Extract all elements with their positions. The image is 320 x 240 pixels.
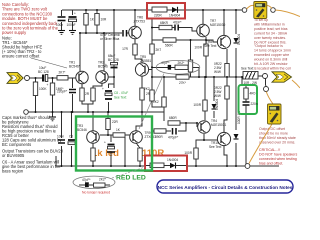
capacitor 100n supply decoupling (56, 17, 66, 27)
diode 1N4004 (bias, top) (234, 34, 242, 45)
svg-text:positive lead; set bias: positive lead; set bias (254, 27, 288, 31)
rail break terminal circle (right) (271, 8, 276, 13)
rail break terminal circle (left) (242, 8, 247, 13)
diode 1N4004 (lower bias) (212, 99, 220, 110)
wire: compensation row mid (171, 66, 175, 68)
svg-text:470pF*: 470pF* (168, 136, 179, 140)
orange supply lead exiting right (275, 10, 300, 17)
svg-text:observed over 20 mins.: observed over 20 mins. (259, 141, 295, 145)
wire: lower-left cap 1 to bottom rail (61, 146, 63, 166)
svg-text:+: + (102, 87, 104, 91)
dashed callout line to red box (112, 167, 145, 178)
output inductor (coil with 10R) (241, 67, 258, 86)
orange meter lead (left to multimeter) (247, 5, 256, 9)
wire: 470pF to TR4 base junction (178, 123, 186, 131)
resistor 680R (driver base) (168, 116, 180, 125)
capacitor 100n (lower-left) (57, 135, 65, 144)
wire: x152 column (2K7 bottom through rows) (151, 54, 153, 90)
svg-text:100K: 100K (39, 87, 47, 91)
note: output transistors (black) (2, 149, 64, 159)
capacitor 10uF BC 128 (input coupling) (38, 66, 49, 87)
resistor 1K (bias base line) (113, 128, 125, 137)
wire: 100n cap to ground (61, 22, 63, 30)
resistor (VAS feed) (153, 97, 166, 107)
wire: C8 top link (109, 84, 115, 88)
orange offset lead (output to multimeter 2) (266, 92, 273, 105)
svg-text:C8 - 47uF: C8 - 47uF (114, 91, 128, 95)
svg-text:27K*: 27K* (179, 81, 187, 85)
transistor TR9 ZTX653 (bias network) (130, 131, 156, 144)
svg-text:47pF*: 47pF* (161, 61, 170, 65)
wire: feedback column down to C8 (113, 77, 115, 88)
svg-text:1N4004: 1N4004 (237, 34, 241, 45)
callout line ellipse to TR9 (139, 74, 164, 130)
svg-text:or Silver Mica: or Silver Mica (100, 37, 120, 41)
wire: TR9 base node drop to rail (124, 137, 126, 166)
output arrow (yellow) (272, 72, 292, 82)
capacitor C8 47uF (102, 87, 128, 100)
svg-text:enamelled copper wire: enamelled copper wire (254, 53, 289, 57)
note: bias set-up with milliammeter (maroon, top-right) (254, 18, 288, 45)
svg-text:14 turns of approx 1mm: 14 turns of approx 1mm (254, 49, 291, 53)
svg-text:1N4004: 1N4004 (169, 14, 180, 18)
wire: TR9 emitter resistor to rail (139, 161, 141, 166)
wire: 0V / feedback horizontal line (28, 111, 164, 113)
resistor 68R (TR7 base row) (159, 21, 172, 30)
note: output inductor (maroon, right) (254, 44, 291, 71)
resistor 2K7 (TR5 base feed) (150, 44, 162, 54)
resistor 47R (TR6 collector) (122, 44, 137, 55)
resistor 1K (from +rail) (84, 14, 95, 26)
wire: VAS feed drop from red box (152, 19, 159, 28)
ground (0V line) (49, 117, 56, 121)
svg-text:390R: 390R (155, 135, 163, 139)
wire: 0V drop to lower-left decoupling caps (61, 112, 63, 138)
capacitor 220n (zobel) (243, 99, 258, 110)
note: output DC offset (maroon, lower-right) (259, 127, 296, 145)
wire: 22R feed from 0V (107, 112, 109, 119)
ground (top-left, 100n) (58, 31, 65, 35)
wire: TR1 collector to base-line of TR6 (79, 33, 81, 72)
wire: 47R to TR5 (135, 55, 142, 63)
ellipse callout: obsolete 47pF / 2K2 (bottom-left) (73, 176, 115, 194)
svg-text:bass region: bass region (2, 169, 24, 174)
svg-text:wound on 6.3mm drill: wound on 6.3mm drill (254, 58, 287, 62)
svg-text:W/W: W/W (214, 94, 221, 98)
wire: 100uF bias cap to rail (110, 152, 112, 166)
svg-text:MJE15030: MJE15030 (210, 23, 225, 27)
wire: tail join drop (87, 104, 89, 112)
wire: inductor to output terminal (258, 75, 263, 77)
wire: 68uF column from rail (113, 10, 115, 77)
svg-text:with Milliammeter in: with Milliammeter in (254, 23, 285, 27)
svg-text:17R: 17R (122, 47, 129, 51)
banner: NCC Series Amplifiers title (157, 180, 293, 193)
svg-text:over twenty minutes.: over twenty minutes. (254, 36, 286, 40)
resistor 100R (TR7 emitter) (194, 44, 208, 56)
resistor tail TR2 (85, 88, 95, 101)
capacitor 100uF (bias) (104, 141, 115, 153)
wire: TR5 base stub (149, 69, 152, 71)
callout line from note to TR1 (31, 58, 67, 68)
svg-text:220pF*: 220pF* (57, 90, 68, 94)
wire: 560R row left (152, 39, 163, 41)
resistor 56R (TR5 emitter) (140, 88, 152, 100)
resistor 10R (from +rail) (95, 14, 107, 26)
0V input connector circle (24, 110, 29, 115)
svg-text:NCC Series Amplifiers - Circui: NCC Series Amplifiers - Circuit Details … (158, 185, 293, 190)
svg-text:No longer required: No longer required (82, 190, 110, 194)
diode 1N4004 (in top red box) (167, 7, 185, 18)
svg-text:2K2*: 2K2* (99, 178, 107, 182)
svg-text:100n: 100n (57, 135, 64, 139)
orange meter lead (right from multimeter) (265, 5, 273, 8)
transistor TR10 output (209, 132, 231, 149)
note: C6 tantalum (black) (2, 160, 61, 174)
offset test terminal circle (264, 87, 269, 92)
resistor 22R (bias) (106, 119, 119, 130)
transistor TR3 BC546 (bias network) (77, 124, 99, 143)
wire: output terminal branch down (265, 79, 267, 87)
wire: compensation row left (152, 66, 168, 68)
wire: lower 1N4004 to TR4 (213, 111, 215, 118)
wire: 1K to TR9 base (125, 134, 130, 136)
transistor TR8 output (204, 35, 231, 48)
wire: 47pF to TR6 base (127, 32, 130, 34)
svg-text:100uF: 100uF (67, 23, 76, 27)
wire: input line after coupling cap (48, 77, 76, 79)
wire: TR7 emitter node to TR8 base (206, 40, 217, 42)
wire: TR9 emitter down (136, 143, 140, 148)
svg-text:should be no more: should be no more (259, 132, 288, 136)
wire: 2K2 shunt bottom (152, 101, 164, 107)
wire: R 1K drop from rail (85, 10, 87, 33)
svg-text:"Output Inductor is: "Output Inductor is (254, 44, 283, 48)
svg-text:220R: 220R (154, 14, 162, 18)
svg-text:2K7: 2K7 (156, 48, 162, 52)
transistor TR1 BC546 (69, 61, 88, 84)
svg-text:BC546: BC546 (98, 65, 108, 69)
svg-text:4R0: 4R0 (250, 92, 256, 96)
svg-text:2N5551: 2N5551 (140, 59, 151, 63)
svg-text:current for 34 - 38mA: current for 34 - 38mA (254, 32, 288, 36)
note: caps / resistors marking (black, mid-left) (2, 115, 62, 147)
svg-text:10R: 10R (101, 18, 108, 22)
resistor 1K2 (144, 87, 154, 101)
wire: TR6 base line with 47pF node (80, 32, 122, 34)
svg-text:1N4004: 1N4004 (167, 158, 178, 162)
svg-text:2K7*: 2K7* (59, 71, 67, 75)
wire: input 100K bias resistor drop (35, 78, 37, 82)
wire: TR2 collector up (103, 33, 105, 71)
svg-text:BC546: BC546 (77, 128, 87, 132)
svg-text:ensure correct offset: ensure correct offset (2, 54, 40, 59)
svg-text:DO NOT have speakers: DO NOT have speakers (259, 153, 297, 157)
wire: VAS collector 100R column (204, 77, 206, 100)
wire: TR3 base line to 1K (100, 134, 113, 136)
wire: zobel riser from output rail (242, 77, 246, 88)
svg-text:220n: 220n (251, 102, 258, 106)
svg-text:100R: 100R (193, 103, 201, 107)
wire: 0R22 top to output rail (226, 77, 228, 86)
wire: 0V to ground symbol (52, 112, 54, 117)
svg-text:C6: C6 (69, 135, 73, 139)
svg-text:1k led: 1k led (92, 148, 119, 159)
wire: TR3 emitter down (92, 143, 94, 148)
resistor 0R22 lower (214, 86, 229, 99)
note: CRITICAL speakers warning (red, lower-right) (259, 148, 297, 166)
wire: lower diode to rail (235, 143, 237, 166)
ground (top-left, 100uF) (69, 31, 76, 35)
resistor 0R22 upper (214, 62, 229, 77)
capacitor 68uF BC 128 (105, 54, 119, 68)
svg-text:Output DC offset: Output DC offset (259, 127, 285, 131)
svg-text:100R: 100R (184, 151, 192, 155)
resistor 560R (163, 38, 176, 48)
transistor TR2 BC546 (96, 61, 108, 84)
svg-text:47pF*: 47pF* (82, 178, 91, 182)
wire: 0R22 bottom resistor to TR10 collector (224, 99, 227, 133)
output terminal circle (263, 74, 268, 79)
resistor 100R (VAS load) (193, 100, 207, 111)
transistor TR7 MJE15030 (197, 19, 226, 37)
wire: TR7 collector to rail (202, 10, 204, 24)
diode 1N4004 (in bottom red box) (164, 158, 187, 169)
wire: 1K2 feed from 27K row (163, 77, 165, 97)
svg-text:2K2: 2K2 (144, 87, 150, 91)
red highlight box (10R / 1N4004 on rail) (145, 156, 187, 172)
svg-text:22R: 22R (112, 120, 119, 124)
resistor TR3 emitter (91, 148, 95, 161)
input terminal arrow (yellow) (7, 73, 23, 84)
svg-text:See Text: See Text (209, 145, 221, 149)
resistor 1M0 (bias) (50, 83, 64, 95)
capacitor 100uF supply decoupling (67, 12, 77, 28)
wire: TR5 emitter down to 56R (141, 76, 143, 88)
wire: TR10 emitter to rail (224, 146, 227, 166)
svg-text:560R: 560R (165, 43, 173, 47)
wire: 22R to base line (107, 130, 109, 136)
wire: input signal line (29, 77, 42, 79)
wire: 390R to 470pF (166, 130, 171, 132)
svg-text:MJE15031: MJE15031 (211, 123, 226, 127)
wire: 100R bottom to rail (195, 159, 197, 166)
orange offset lead (multimeter 2 to 0V terminal) (249, 124, 272, 164)
wire: R 10R drop from rail (96, 10, 98, 33)
svg-text:1N4004: 1N4004 (215, 99, 219, 110)
svg-text:ZTX753: ZTX753 (134, 20, 146, 24)
wire: 390R row (153, 130, 154, 132)
wire: 220pF bottom to 0V line (72, 94, 74, 112)
wire: 2K7 feed (151, 40, 153, 44)
wire: 220pF column (72, 78, 74, 88)
wire: bottom rail right of 0V terminal (250, 165, 279, 167)
capacitor 47pF (TR7 base row) (172, 20, 182, 30)
wire: TR2 base to feedback column (108, 76, 114, 78)
wire: 100n decoupling cap drop from rail (61, 10, 63, 16)
resistor 10R (in bottom red box) (145, 163, 164, 168)
input connector circle (25, 76, 30, 81)
wire: TR3 collector up to 0V line (92, 112, 94, 131)
svg-text:BC components: BC components (2, 142, 31, 147)
note: TR1 gain matching (black) (2, 36, 43, 59)
wire: 68R/47pF row to TR7 base (179, 28, 197, 32)
svg-text:+: + (74, 12, 76, 16)
capacitor 220pF (57, 90, 76, 94)
svg-text:See Text: See Text (114, 96, 126, 100)
wire: lower bias diode column (235, 77, 237, 130)
svg-text:connected when testing: connected when testing (259, 157, 297, 161)
svg-text:47pF*: 47pF* (173, 20, 182, 24)
wire: 680R row to TR4 base (180, 123, 197, 127)
svg-text:68KR: 68KR (160, 21, 169, 25)
wire: 56R down crossing 0V line into green box to TR9 collector (136, 100, 142, 131)
transistor TR4 MJE15031 (198, 119, 227, 133)
wire: bias diode to TR7/TR8 (235, 48, 237, 77)
svg-text:CRITICAL...!!: CRITICAL...!! (259, 148, 280, 152)
wire: TR4 emitter to TR10 base (204, 139, 217, 141)
resistor 4R7 (zobel) (244, 88, 256, 99)
wire: row1 vertical to row2 (151, 28, 153, 41)
wire: 100K bottom to 0V line (35, 96, 37, 112)
wire: second bias resistor to 680R row (163, 107, 165, 121)
svg-text:See Text: See Text (241, 67, 253, 71)
wire: TR3 emitter resistor to rail (92, 161, 94, 166)
wire: negative supply bottom rail (left of red box) (56, 156, 145, 166)
svg-text:+: + (47, 83, 49, 87)
wire: 560R row to TR7 emitter node (176, 39, 206, 41)
svg-text:bit. A 10R 2W resistor: bit. A 10R 2W resistor (254, 62, 288, 66)
wire: TR8 emitter to 0R22 (226, 49, 228, 64)
svg-text:BC546*: BC546* (69, 65, 81, 69)
wire: 100uF cap to ground (72, 22, 74, 30)
note: power supply warning (red, top-left) (2, 2, 59, 35)
svg-text:or BUV6905: or BUV6905 (2, 153, 25, 158)
transistor TR6 ZTX753 (129, 16, 145, 39)
wire: 100R to TR4 collector (204, 111, 206, 120)
resistor 220R (in top red box) (152, 7, 167, 18)
wire: TR6 collector down to 47R (134, 39, 136, 44)
svg-text:W/W: W/W (214, 70, 221, 74)
wire: lower-left cap 2 to bottom rail (71, 146, 73, 166)
svg-text:BC 128: BC 128 (38, 70, 49, 74)
orange output cable tail (292, 80, 300, 88)
svg-text:2R: 2R (85, 92, 90, 96)
green highlight box (bias/current-source network) (76, 117, 152, 171)
resistor 100K (input bias) (33, 82, 47, 96)
wire: C8 bottom to 0V (108, 102, 110, 112)
svg-text:is located within the coil: is located within the coil (254, 67, 291, 71)
svg-text:100n: 100n (56, 23, 63, 27)
transistor TR5 2N5551 (135, 55, 151, 76)
svg-text:+: + (104, 141, 106, 145)
wire: TR2 emitter to tail resistor (93, 83, 102, 88)
wire: TR7 emitter down (205, 37, 207, 44)
svg-text:680R: 680R (169, 116, 177, 120)
diode 1N4004 (lower rail side) (234, 111, 242, 139)
svg-text:1K2: 1K2 (153, 100, 159, 104)
resistor 100R (driver emitter) (184, 148, 198, 159)
wire: bootstrap to output rail (190, 72, 192, 77)
ellipse callout: 47pF / 2K2 compensation (156, 60, 200, 74)
wire: TR4 emitter down to 100R (196, 134, 204, 148)
svg-text:See Text: See Text (204, 44, 216, 48)
resistor tail TR1 (80, 88, 84, 101)
wire: 100uF bias cap drop (110, 135, 112, 142)
wire: lower-left cap 2 column (71, 112, 73, 138)
wire: TR8 collector column (223, 10, 225, 35)
wire: bias diode column (top) (235, 10, 237, 34)
wire: output rail to inductor (152, 76, 243, 78)
wire: 1M0 top (52, 78, 54, 83)
svg-text:power supply: power supply (2, 30, 27, 35)
multimeter icon (offset check) (268, 104, 282, 124)
capacitor 47pF ceramic (TR6 base) (100, 30, 127, 41)
capacitor 470pF (168, 128, 179, 140)
svg-text:100R: 100R (194, 46, 202, 50)
wire: zobel cap to rail 0V terminal (245, 110, 247, 164)
wire: lower 1N4004 column (213, 77, 215, 101)
wire: bottom rail inside red box handled by components, right segment (187, 165, 245, 167)
wire: bootstrap column (190, 40, 192, 60)
wire: tail resistors join to 0V (82, 101, 93, 104)
wire: 100uF decoupling cap drop from rail (72, 10, 74, 15)
multimeter icon (bias set-up) (254, 2, 267, 19)
resistor 390R (154, 129, 166, 139)
0V terminal circle on bottom rail (245, 164, 250, 169)
wire: riser joining comp row and rail (198, 67, 200, 77)
svg-text:BC 128: BC 128 (108, 58, 119, 62)
wire: TR7 emitter resistor to rail junction (205, 56, 207, 77)
red highlight box (220R / 1N4004) (147, 3, 185, 19)
svg-text:bias and offset.: bias and offset. (259, 162, 283, 166)
wire: TR1 emitter to tail resistor (81, 84, 83, 88)
resistor 1K5 (bootstrap) (188, 60, 192, 72)
wire: compensation row right to riser (188, 66, 199, 68)
capacitor 220uF (lower-left) (68, 135, 75, 145)
green zobel box (239, 85, 258, 114)
wire: positive supply top rail (62, 9, 242, 11)
svg-text:RED LED: RED LED (116, 175, 146, 182)
wire: TR6 emitter to rail (134, 10, 136, 26)
wire: 1M0 bottom to 0V line (52, 95, 54, 112)
resistor 27K feedback (176, 75, 189, 85)
resistor TR9 emitter (138, 148, 142, 161)
svg-text:2K2*: 2K2* (178, 61, 186, 65)
resistor 2K7 (input series) (57, 71, 68, 81)
